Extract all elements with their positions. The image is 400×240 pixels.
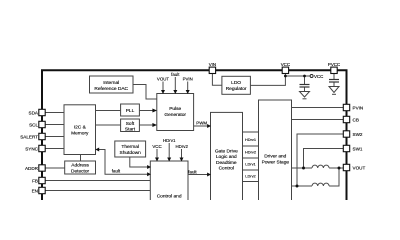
svg-text:Address: Address (71, 163, 89, 169)
svg-text:I2C &: I2C & (74, 125, 87, 131)
svg-text:Power Stage: Power Stage (262, 159, 290, 165)
svg-text:Internal: Internal (103, 80, 119, 86)
svg-text:VCC: VCC (314, 74, 323, 79)
svg-text:HDrv1: HDrv1 (163, 138, 176, 143)
svg-text:Shutdown: Shutdown (120, 150, 142, 156)
svg-text:EN: EN (32, 188, 38, 193)
svg-text:fault: fault (171, 72, 180, 77)
svg-text:VIN: VIN (209, 62, 216, 67)
svg-text:SDA: SDA (29, 110, 39, 115)
svg-text:HDrv2: HDrv2 (245, 150, 256, 155)
svg-text:Start: Start (125, 126, 136, 132)
svg-text:Thermal: Thermal (121, 144, 139, 150)
svg-text:Generator: Generator (164, 112, 186, 118)
svg-text:SYNC: SYNC (25, 146, 38, 151)
svg-text:SCL: SCL (29, 122, 38, 127)
svg-text:PVCC: PVCC (328, 62, 340, 67)
svg-text:LDrv1: LDrv1 (245, 162, 255, 167)
svg-text:Detector: Detector (71, 168, 90, 174)
svg-text:Regulator: Regulator (226, 86, 247, 92)
svg-text:VCC: VCC (281, 62, 290, 67)
svg-text:Gate Drive: Gate Drive (215, 148, 238, 154)
svg-text:FB: FB (32, 178, 38, 183)
svg-text:PLL: PLL (126, 108, 135, 114)
svg-text:ADDR: ADDR (25, 166, 39, 171)
svg-text:Pulse: Pulse (169, 106, 181, 112)
svg-text:Deadtime: Deadtime (216, 160, 237, 166)
svg-text:Control and: Control and (157, 194, 182, 200)
svg-text:SW1: SW1 (353, 146, 363, 151)
svg-text:SW2: SW2 (353, 132, 363, 137)
svg-text:CB: CB (353, 117, 359, 122)
svg-text:Control: Control (219, 166, 234, 172)
svg-text:Memory: Memory (71, 131, 89, 137)
svg-text:HDrv1: HDrv1 (245, 137, 256, 142)
svg-text:VOUT: VOUT (353, 165, 366, 170)
svg-text:LDrv2: LDrv2 (245, 174, 255, 179)
svg-text:Logic and: Logic and (216, 154, 237, 160)
svg-text:PWM: PWM (196, 120, 207, 125)
svg-text:PVIN: PVIN (353, 105, 364, 110)
svg-text:fault: fault (188, 169, 197, 174)
svg-text:VCC: VCC (152, 144, 161, 149)
svg-text:fault: fault (112, 169, 121, 174)
svg-text:PVIN: PVIN (183, 76, 193, 81)
svg-text:Soft: Soft (126, 121, 135, 127)
svg-text:HDrv2: HDrv2 (175, 144, 188, 149)
svg-text:SALERT: SALERT (20, 134, 38, 139)
svg-text:Driver and: Driver and (264, 153, 286, 159)
svg-text:LDO: LDO (231, 80, 241, 86)
svg-text:VOUT: VOUT (157, 76, 170, 81)
svg-text:Reference DAC: Reference DAC (94, 86, 128, 92)
